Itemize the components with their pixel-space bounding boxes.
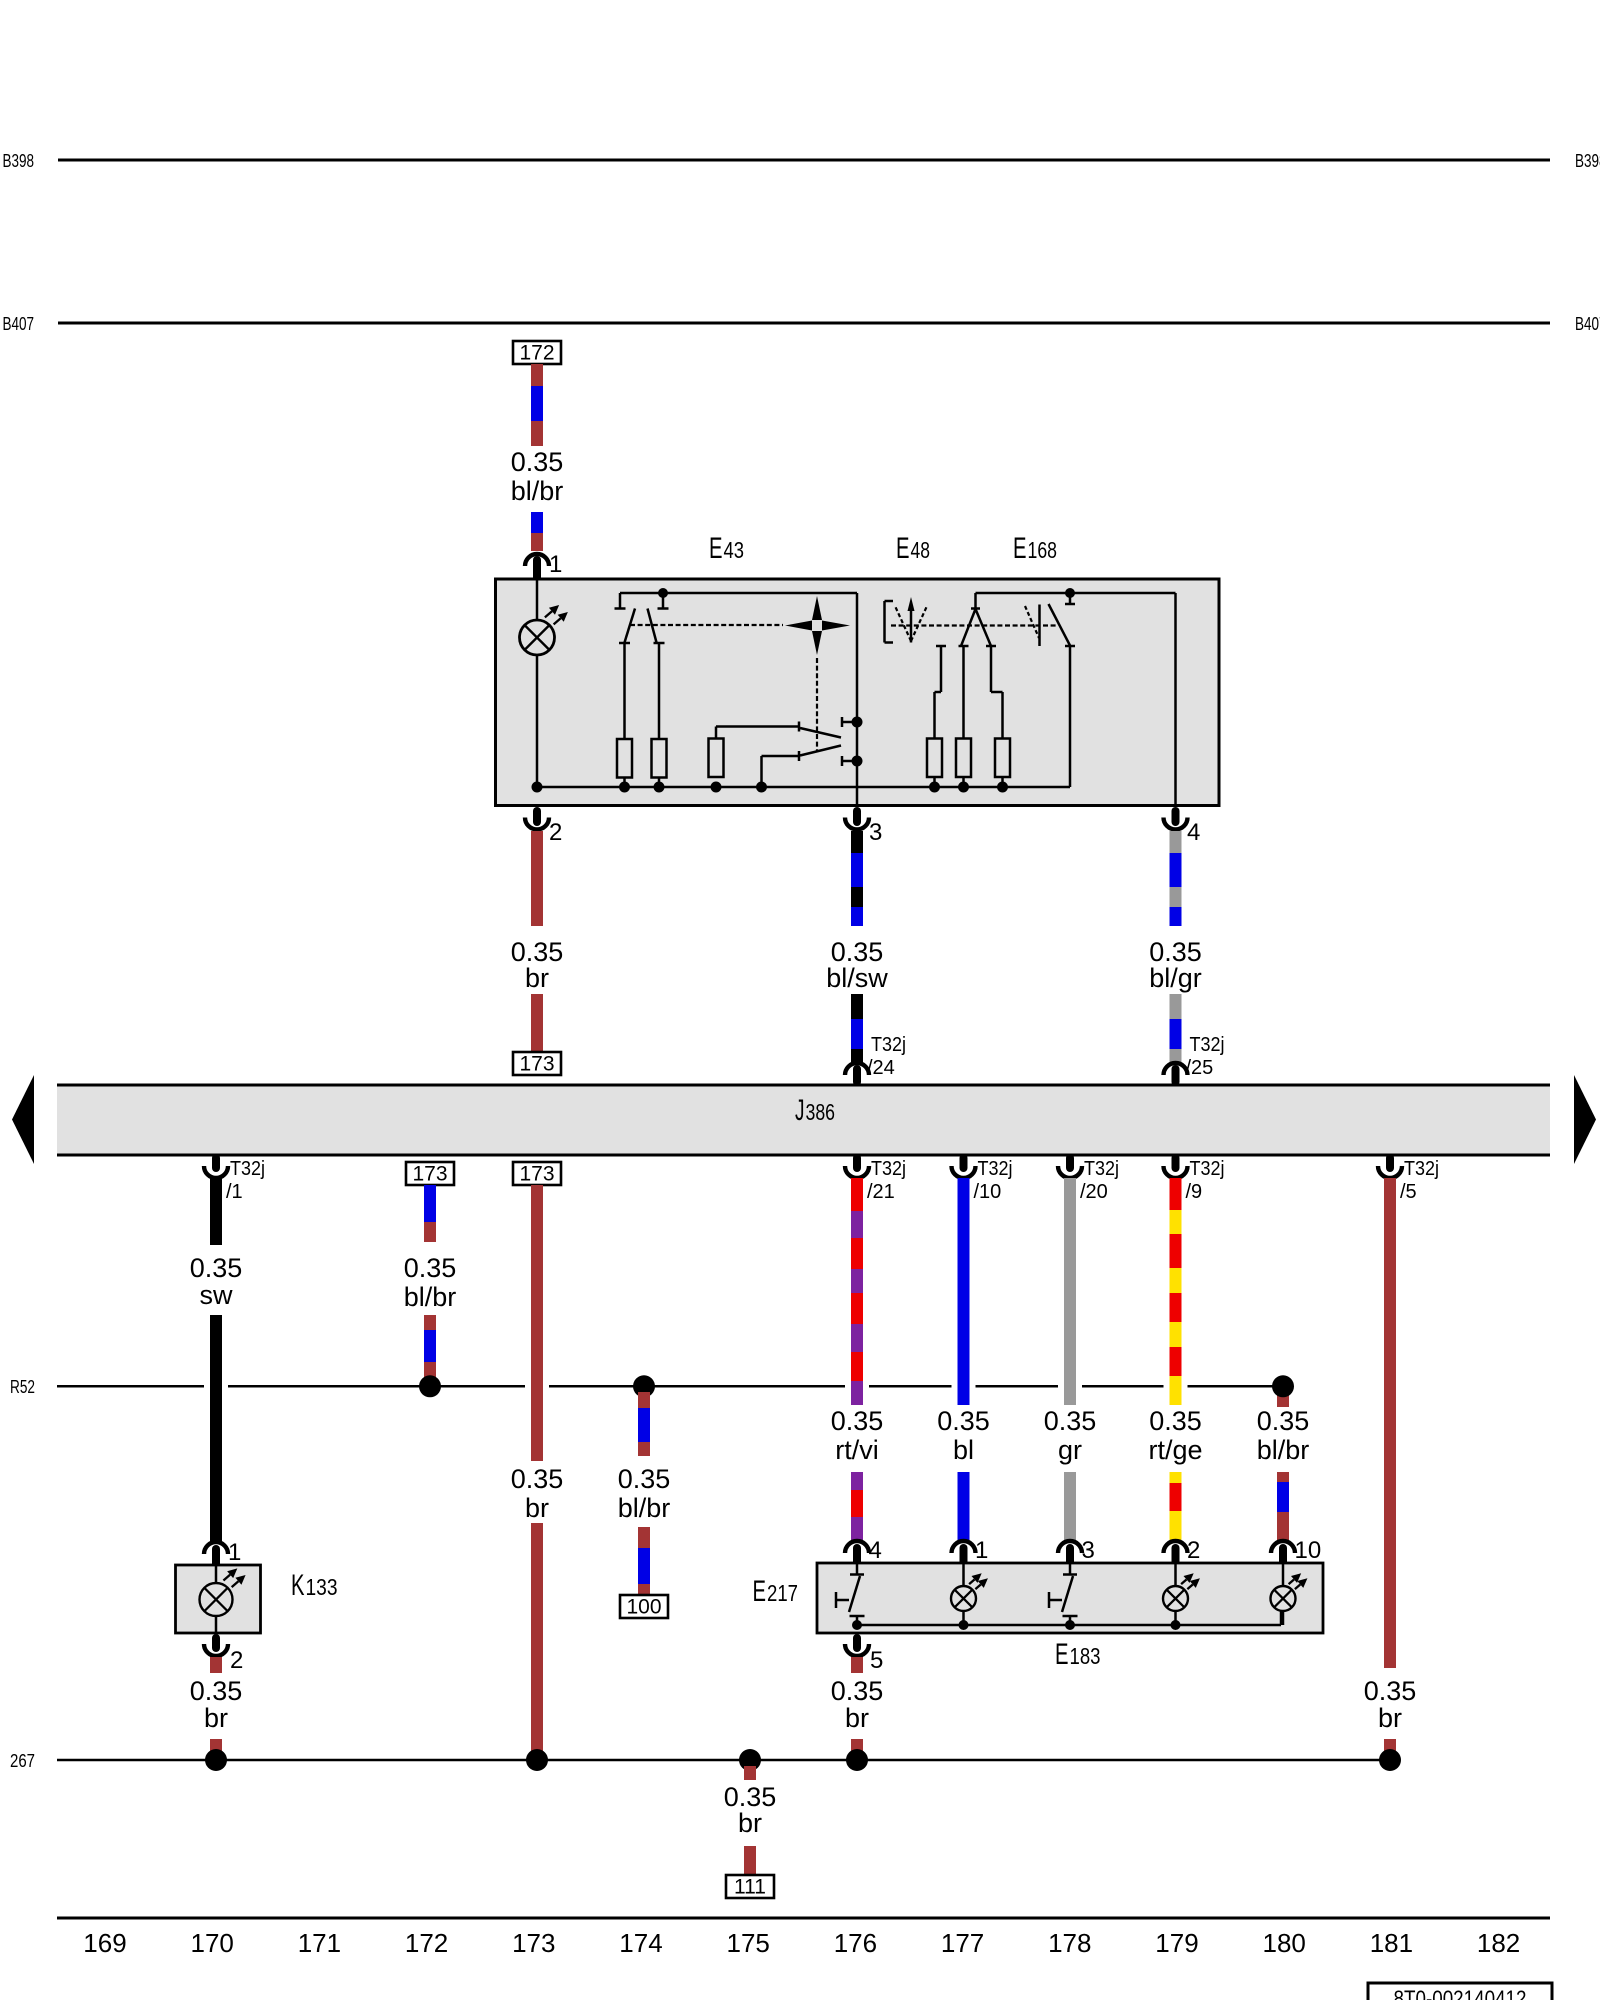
svg-text:182: 182 <box>1477 1928 1520 1958</box>
svg-text:48: 48 <box>911 537 931 563</box>
svg-text:0.35: 0.35 <box>1364 1676 1417 1706</box>
svg-text:K: K <box>291 1569 305 1602</box>
wire stub from rail node <box>662 593 665 608</box>
bus junction nodes E48 <box>929 782 940 793</box>
wire 0.35 sw T32j/1 (lower) <box>210 1315 222 1542</box>
wire 0.35 sw T32j/1 (upper) <box>210 1178 222 1245</box>
svg-text:168: 168 <box>1028 537 1058 563</box>
svg-text:br: br <box>845 1703 869 1733</box>
svg-text:176: 176 <box>834 1928 877 1958</box>
svg-text:0.35: 0.35 <box>511 1464 564 1494</box>
svg-text:gr: gr <box>1058 1435 1082 1465</box>
svg-text:B398: B398 <box>3 151 35 171</box>
svg-text:178: 178 <box>1048 1928 1091 1958</box>
connector E43 pin 1 <box>525 554 549 566</box>
svg-text:T32j: T32j <box>871 1158 906 1180</box>
wire internal rail E43 <box>620 592 857 595</box>
fixed contact tick E168 <box>1065 645 1075 648</box>
node 100 label box <box>620 1595 668 1618</box>
svg-text:133: 133 <box>306 1574 338 1600</box>
switch E168 dashed arm <box>1025 606 1039 638</box>
svg-text:E: E <box>709 532 723 565</box>
connector T32j/9 under J386 <box>1172 1158 1180 1168</box>
connector T32j/10 under J386 <box>960 1158 968 1168</box>
switch arms E48 <box>961 609 976 646</box>
wire resistor to bus <box>623 778 626 788</box>
wire 0.35 br T32j/5 (long) <box>1384 1178 1396 1668</box>
wire 0.35 br T32j/5 (stub to 267) <box>1384 1739 1396 1757</box>
wire 0.35 bl/gr from pin4 (upper) <box>1170 831 1182 853</box>
node R52/E183 junction <box>1272 1375 1294 1397</box>
connector E43 pin 2 <box>533 811 541 822</box>
svg-text:1: 1 <box>549 551 562 578</box>
node R52/173 junction <box>419 1375 441 1397</box>
connector K133 pin 2 <box>212 1638 220 1648</box>
control module J386 bar <box>57 1085 1550 1155</box>
connector K133 pin 1 <box>204 1542 228 1554</box>
selector arm lower <box>800 746 841 756</box>
svg-text:bl/br: bl/br <box>1257 1435 1310 1465</box>
svg-text:br: br <box>738 1808 762 1838</box>
lamp (indicator) in E43 <box>520 620 555 655</box>
connector E217 pin 5 <box>853 1638 861 1648</box>
svg-text:/5: /5 <box>1400 1181 1417 1203</box>
wire rail drop left contact <box>619 593 622 608</box>
node 111 label box <box>726 1875 774 1898</box>
svg-text:2: 2 <box>1187 1537 1200 1564</box>
lamp in E183 <box>962 1564 965 1586</box>
connector E183 pin 3 <box>1058 1541 1082 1553</box>
wire pin1 to lamp K133 <box>215 1566 218 1583</box>
connector T32j/25 into J386 <box>1164 1063 1188 1075</box>
connector E183 pin 10 <box>1271 1541 1295 1553</box>
svg-text:T32j: T32j <box>1084 1158 1119 1180</box>
connector E168 pin 4 <box>1172 811 1180 822</box>
svg-text:0.35: 0.35 <box>1044 1406 1097 1436</box>
bus junction nodes <box>532 782 543 793</box>
svg-text:bl/br: bl/br <box>404 1282 457 1312</box>
wire 0.35 rt/vi T32j/21 (lower) <box>851 1472 863 1490</box>
svg-text:T32j: T32j <box>1404 1158 1439 1180</box>
svg-text:T32j: T32j <box>1190 1034 1225 1056</box>
svg-text:183: 183 <box>1070 1643 1101 1669</box>
node 172 label box <box>513 341 561 364</box>
svg-text:267: 267 <box>10 1751 35 1771</box>
component box E217/E183 <box>817 1563 1323 1633</box>
svg-text:br: br <box>525 1493 549 1523</box>
bracket symbol E48 <box>883 601 886 643</box>
svg-text:174: 174 <box>619 1928 662 1958</box>
fixed contact ticks E43 <box>619 642 630 645</box>
svg-text:sw: sw <box>200 1280 234 1310</box>
svg-text:8T0-002140412: 8T0-002140412 <box>1394 1986 1527 2000</box>
continuation arrow right <box>1574 1075 1596 1164</box>
connector T32j/1 under J386 <box>212 1158 220 1168</box>
svg-text:0.35: 0.35 <box>1257 1406 1310 1436</box>
svg-text:0.35: 0.35 <box>190 1253 243 1283</box>
connector T32j/5 under J386 <box>1386 1158 1394 1168</box>
svg-text:bl/br: bl/br <box>618 1493 671 1523</box>
resistor (coding) E43 mid <box>709 739 724 778</box>
switch E168 solid arm <box>1049 604 1071 646</box>
resistor (coding) E43 left <box>617 739 632 778</box>
wire lamp to pin2 K133 <box>215 1616 218 1633</box>
svg-text:0.35: 0.35 <box>404 1253 457 1283</box>
wire contact to resistor R-right <box>658 643 661 739</box>
lamp in E183 <box>1282 1564 1285 1586</box>
internal bus E183 <box>857 1624 1281 1627</box>
mechanical coupling dashed line E43 <box>630 624 783 626</box>
svg-text:bl/gr: bl/gr <box>1149 963 1202 993</box>
net B398 rail <box>58 159 1550 162</box>
svg-text:/1: /1 <box>226 1181 243 1203</box>
fixed contact ticks E48 <box>936 645 946 648</box>
connector E48 pin 3 <box>853 811 861 822</box>
net 267 ground rail <box>57 1759 1390 1762</box>
wire 0.35 br K133 pin2 (stub) <box>210 1657 222 1673</box>
svg-text:2: 2 <box>549 819 562 846</box>
resistor (coding) E43 right <box>652 739 667 778</box>
connector E183 pin 4 <box>845 1541 869 1553</box>
wire 0.35 rt/ge T32j/9 (lower) <box>1170 1472 1182 1483</box>
svg-text:0.35: 0.35 <box>831 1406 884 1436</box>
svg-text:111: 111 <box>734 1876 766 1899</box>
svg-text:B407: B407 <box>3 314 35 334</box>
svg-text:2: 2 <box>230 1647 243 1674</box>
svg-text:T32j: T32j <box>871 1034 906 1056</box>
svg-text:217: 217 <box>767 1580 798 1606</box>
svg-text:J: J <box>795 1094 805 1127</box>
svg-text:181: 181 <box>1370 1928 1413 1958</box>
svg-text:/9: /9 <box>1186 1181 1203 1203</box>
svg-text:4: 4 <box>869 1537 882 1564</box>
svg-text:E: E <box>1055 1638 1069 1671</box>
node 173 label box mid <box>513 1162 561 1185</box>
svg-text:179: 179 <box>1155 1928 1198 1958</box>
svg-text:0.35: 0.35 <box>831 1676 884 1706</box>
svg-text:/10: /10 <box>974 1181 1002 1203</box>
svg-text:3: 3 <box>869 819 882 846</box>
node on rail E43 <box>658 588 668 598</box>
resistor (coding) E48 right <box>995 739 1010 778</box>
connector E183 pin 2 <box>1164 1541 1188 1553</box>
wire 0.35 bl/br to E183 pin 10 (lower) <box>1277 1472 1289 1482</box>
svg-text:386: 386 <box>806 1099 836 1125</box>
wire rail to pin4 vertical <box>1174 593 1177 806</box>
wire 0.35 gr T32j/20 (lower) <box>1064 1472 1076 1540</box>
wire 0.35 bl/br from node 172 to E43 pin 1 (lower) <box>531 512 543 533</box>
connector T32j/20 under J386 <box>1066 1158 1074 1168</box>
continuation arrow left <box>12 1075 34 1164</box>
internal bus E box <box>537 786 1070 789</box>
svg-text:173: 173 <box>519 1053 554 1076</box>
wire stub E168 pivot <box>1069 593 1072 604</box>
wire 0.35 bl T32j/10 (lower) <box>958 1472 970 1540</box>
svg-text:43: 43 <box>724 537 745 563</box>
joystick cross symbol E43 <box>812 596 822 620</box>
mechanical coupling dashed vertical E43 <box>816 658 818 752</box>
svg-text:0.35: 0.35 <box>937 1406 990 1436</box>
wire E168 contact to bus <box>1069 646 1072 787</box>
svg-text:172: 172 <box>405 1928 448 1958</box>
wire E48 contact1 to resistor <box>940 646 943 692</box>
wire 0.35 rt/vi T32j/21 (upper) <box>851 1178 863 1211</box>
antenna/wiper symbol E48 <box>910 604 913 643</box>
wire 0.35 bl/sw from pin3 (lower) <box>851 994 863 1019</box>
svg-text:B407: B407 <box>1575 314 1600 334</box>
connector T32j/24 into J386 <box>845 1063 869 1075</box>
net B407 rail <box>58 322 1550 325</box>
wire contact to resistor R-left <box>623 643 626 739</box>
svg-text:/24: /24 <box>867 1057 895 1079</box>
svg-text:bl: bl <box>953 1435 974 1465</box>
component box E43/E48/E168 switch unit <box>496 579 1220 806</box>
ground nodes on 267 <box>205 1749 227 1771</box>
resistor (coding) E48 mid <box>956 739 971 778</box>
drawing number box 8T0-002140412 <box>1368 1983 1552 2000</box>
connector E183 pin 1 <box>952 1541 976 1553</box>
svg-text:0.35: 0.35 <box>190 1676 243 1706</box>
fixed contact upper to pin3 line <box>841 717 844 727</box>
svg-text:173: 173 <box>512 1928 555 1958</box>
switch arms E43 (two-contact switch) <box>625 609 636 643</box>
wire 0.35 br from pin2 (upper) <box>531 831 543 926</box>
node R52/100 junction <box>633 1375 655 1397</box>
svg-text:E: E <box>896 532 910 565</box>
wire 0.35 br from 267 to 111 (stub) <box>744 1766 756 1780</box>
svg-text:177: 177 <box>941 1928 984 1958</box>
svg-text:180: 180 <box>1263 1928 1306 1958</box>
fixed contact lower to pin3 line <box>841 756 844 766</box>
svg-text:1: 1 <box>975 1537 988 1564</box>
svg-text:bl/br: bl/br <box>511 476 564 506</box>
wire pin1 to lamp (inside E43) <box>536 580 539 620</box>
switch (button) in E217 <box>856 1564 859 1574</box>
svg-text:171: 171 <box>298 1928 341 1958</box>
svg-text:1: 1 <box>228 1539 241 1566</box>
wire 0.35 bl/br from R52 to 100 (upper) <box>638 1392 650 1408</box>
svg-text:T32j: T32j <box>978 1158 1013 1180</box>
component box K133 <box>176 1565 261 1633</box>
wire 0.35 br E217 pin5 (stub) <box>851 1657 863 1673</box>
svg-text:3: 3 <box>1082 1537 1095 1564</box>
wire 0.35 bl T32j/10 (upper) <box>958 1178 970 1405</box>
svg-text:bl/sw: bl/sw <box>826 963 888 993</box>
svg-text:172: 172 <box>519 342 554 365</box>
node rail to E168 <box>1065 588 1075 598</box>
svg-text:0.35: 0.35 <box>1149 1406 1202 1436</box>
wire 0.35 bl/br from 173 (upper) <box>424 1185 436 1222</box>
svg-text:173: 173 <box>519 1163 554 1186</box>
svg-text:rt/ge: rt/ge <box>1148 1435 1202 1465</box>
svg-text:0.35: 0.35 <box>618 1464 671 1494</box>
svg-text:br: br <box>204 1703 228 1733</box>
wire 0.35 bl/br from R52 node (stub) <box>1277 1392 1289 1407</box>
wire 0.35 bl/br from node 172 to E43 pin 1 (upper) <box>531 364 543 386</box>
svg-text:175: 175 <box>727 1928 770 1958</box>
mechanical coupling dashed line E48 <box>891 624 1056 626</box>
wire internal rail E48/E168 <box>976 592 1176 595</box>
wire rail drop to E48 switch <box>974 593 977 608</box>
wire lamp5 corner <box>1280 1611 1283 1625</box>
svg-text:/21: /21 <box>867 1181 895 1203</box>
svg-text:B398: B398 <box>1575 151 1600 171</box>
wire bus to selector lower <box>760 756 763 787</box>
lamp in E183 <box>1174 1564 1177 1586</box>
node 173 label box upper <box>513 1052 561 1075</box>
wire 0.35 gr T32j/20 (upper) <box>1064 1178 1076 1405</box>
wire 0.35 br long (lower) <box>531 1523 543 1760</box>
wire 0.35 br K133 to 267 (stub) <box>210 1739 222 1757</box>
svg-text:/20: /20 <box>1080 1181 1108 1203</box>
wire 0.35 br long (upper) <box>531 1185 543 1461</box>
wire 0.35 rt/ge T32j/9 (upper) <box>1170 1178 1182 1210</box>
svg-text:T32j: T32j <box>230 1158 265 1180</box>
svg-text:/25: /25 <box>1186 1057 1214 1079</box>
connector T32j/21 under J386 <box>853 1158 861 1168</box>
wire 0.35 bl/gr from pin4 (lower) <box>1170 994 1182 1019</box>
svg-text:5: 5 <box>870 1647 883 1674</box>
wire 0.35 br to 111 <box>744 1846 756 1875</box>
wire 0.35 bl/br from R52 to 100 (lower) <box>638 1527 650 1548</box>
svg-text:E: E <box>753 1575 767 1608</box>
svg-text:100: 100 <box>626 1596 661 1619</box>
wire resistor mid to selector contact <box>715 727 718 739</box>
svg-text:R52: R52 <box>10 1377 35 1397</box>
wire E48 contact2 to resistor <box>962 646 965 739</box>
selector arm upper <box>800 728 841 738</box>
wire 0.35 bl/sw from pin3 (upper) <box>851 831 863 853</box>
wire lamp to internal bus <box>536 655 539 787</box>
grid baseline <box>57 1917 1550 1920</box>
bus nodes E183 <box>852 1620 862 1630</box>
svg-text:T32j: T32j <box>1190 1158 1225 1180</box>
wire 0.35 br E217 to 267 (stub) <box>851 1739 863 1757</box>
svg-text:170: 170 <box>191 1928 234 1958</box>
resistor (coding) E48 left <box>927 739 942 778</box>
svg-text:0.35: 0.35 <box>511 447 564 477</box>
switch E168 vertical contact <box>1038 605 1041 647</box>
lamp (indicator) K133 <box>200 1583 233 1616</box>
svg-text:169: 169 <box>83 1928 126 1958</box>
node 173 label box left <box>406 1162 454 1185</box>
svg-text:4: 4 <box>1187 819 1200 846</box>
wire 0.35 bl/br from 173 (lower) <box>424 1315 436 1330</box>
net R52 rail (segmented) <box>57 1385 204 1388</box>
switch (button) in E217 <box>1069 1564 1072 1574</box>
svg-text:10: 10 <box>1295 1537 1322 1564</box>
wire 0.35 br from pin2 (lower) <box>531 994 543 1052</box>
wire resistor to bus <box>658 778 661 788</box>
svg-text:br: br <box>525 963 549 993</box>
svg-text:E: E <box>1013 532 1027 565</box>
svg-text:rt/vi: rt/vi <box>835 1435 879 1465</box>
wire pin3 vertical line <box>856 593 859 806</box>
svg-text:173: 173 <box>412 1163 447 1186</box>
svg-text:br: br <box>1378 1703 1402 1733</box>
wire E48 contact3 to resistor <box>990 646 993 692</box>
